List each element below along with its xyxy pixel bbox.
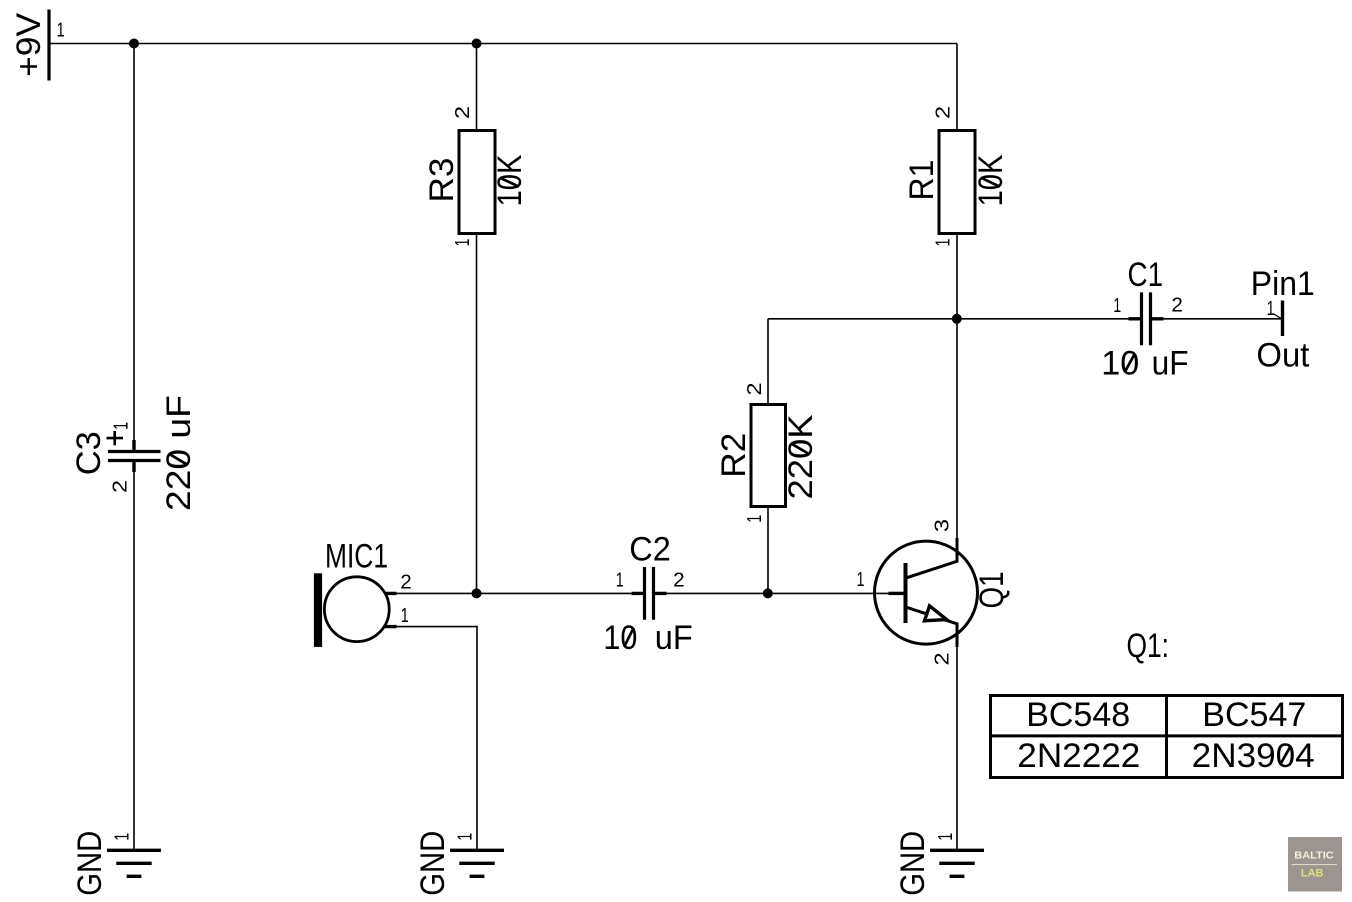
svg-text:R3: R3 [423, 158, 461, 203]
svg-text:BC547: BC547 [1202, 696, 1306, 734]
svg-text:uF: uF [655, 619, 693, 657]
svg-text:MIC1: MIC1 [325, 538, 388, 576]
svg-text:1: 1 [1267, 298, 1275, 320]
svg-text:1: 1 [616, 570, 624, 592]
svg-text:BC548: BC548 [1026, 696, 1130, 734]
svg-text:GND: GND [71, 831, 109, 896]
svg-text:1: 1 [112, 833, 134, 841]
svg-text:LAB: LAB [1301, 868, 1324, 880]
svg-text:1: 1 [111, 422, 133, 430]
svg-text:uF: uF [1152, 345, 1189, 383]
svg-text:Q1: Q1 [973, 572, 1011, 609]
svg-text:2: 2 [452, 106, 474, 119]
svg-text:C3: C3 [70, 431, 108, 475]
svg-text:2N3904: 2N3904 [1192, 737, 1315, 775]
svg-text:1: 1 [1113, 295, 1121, 317]
svg-text:+9V: +9V [10, 13, 48, 77]
svg-text:Q1:: Q1: [1126, 627, 1169, 665]
svg-text:1: 1 [935, 833, 957, 841]
svg-text:3: 3 [932, 519, 954, 532]
svg-text:1: 1 [857, 569, 865, 591]
svg-text:1: 1 [452, 239, 474, 247]
svg-text:R1: R1 [903, 160, 941, 201]
svg-text:2: 2 [400, 572, 412, 594]
svg-text:1: 1 [57, 20, 65, 42]
svg-text:C2: C2 [629, 531, 671, 569]
svg-text:1: 1 [744, 515, 766, 523]
svg-text:2: 2 [110, 480, 132, 493]
svg-text:10K: 10K [972, 154, 1010, 206]
svg-text:1: 1 [401, 605, 409, 627]
svg-text:220K: 220K [782, 414, 820, 499]
svg-text:220 uF: 220 uF [160, 395, 198, 511]
svg-text:10: 10 [1101, 345, 1139, 383]
svg-text:GND: GND [894, 831, 932, 896]
svg-text:2: 2 [1171, 295, 1183, 317]
svg-text:2: 2 [932, 653, 954, 666]
svg-text:2: 2 [744, 383, 766, 396]
svg-text:BALTIC: BALTIC [1294, 850, 1334, 862]
svg-text:10K: 10K [491, 154, 529, 206]
svg-text:2N2222: 2N2222 [1017, 737, 1140, 775]
svg-text:10: 10 [603, 619, 637, 657]
svg-text:1: 1 [933, 239, 955, 247]
svg-text:GND: GND [414, 831, 452, 896]
svg-text:2: 2 [673, 570, 685, 592]
svg-text:Pin1: Pin1 [1251, 265, 1315, 303]
svg-text:Out: Out [1256, 336, 1310, 374]
svg-text:C1: C1 [1128, 256, 1164, 294]
svg-text:1: 1 [455, 833, 477, 841]
svg-text:R2: R2 [715, 433, 753, 478]
svg-text:2: 2 [933, 106, 955, 119]
